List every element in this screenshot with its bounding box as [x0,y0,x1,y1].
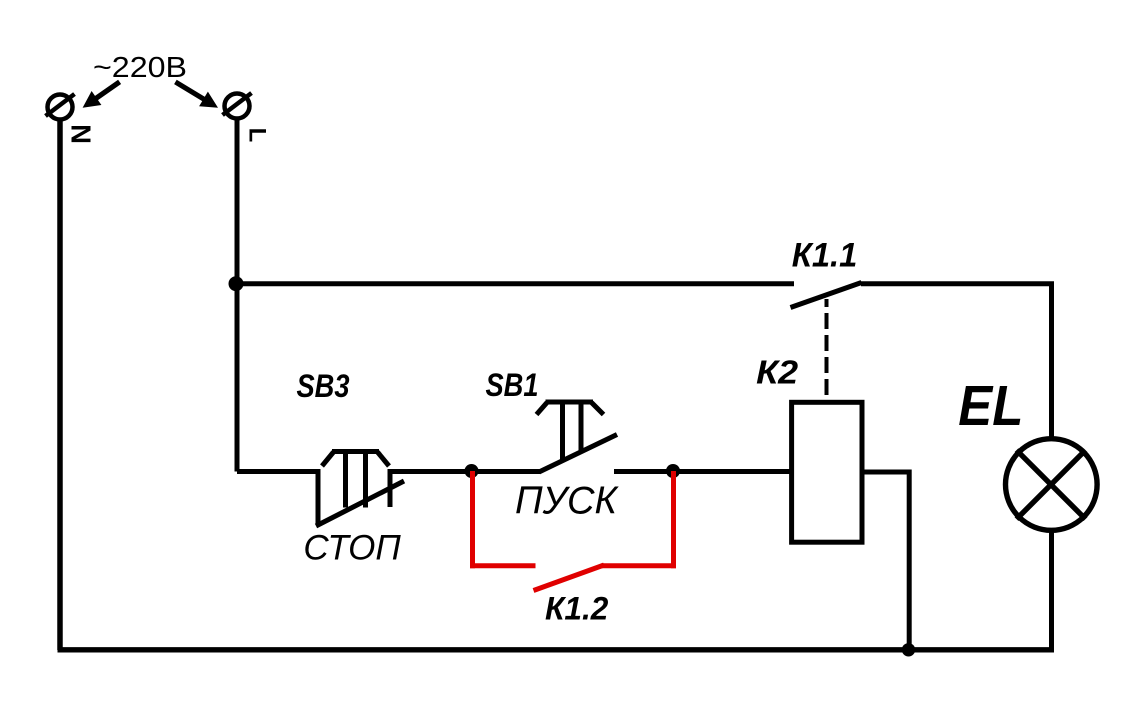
node A junction dot [465,464,479,478]
contact K1.1 (closed arm diagonal) [791,283,862,308]
wire SB1 to node B [614,469,675,474]
wire node A to SB1 [471,469,541,474]
red wire bypass left horizontal [470,563,536,568]
wire lamp bottom [1049,530,1054,650]
svg-text:L: L [244,128,271,143]
wire bottom horizontal [58,647,1055,652]
svg-text:К1.2: К1.2 [545,590,609,626]
node junction bottom [902,643,915,656]
wire SB3 to node A [390,469,474,474]
pushbutton SB3 (NC) [316,452,404,527]
wire left vertical from N terminal to bottom [57,120,63,651]
dashed mechanical link K1.1 to K2 [825,299,829,400]
svg-text:SB3: SB3 [297,368,350,404]
terminal N [46,94,75,120]
terminal L [223,93,252,119]
svg-text:К2: К2 [756,354,799,391]
svg-text:EL: EL [958,374,1023,438]
wire from K1.1 to right corner [861,284,1052,440]
wire K2 right to down [862,472,909,650]
svg-text:ПУСК: ПУСК [515,480,619,523]
node junction at top branch [229,276,244,291]
wire top horizontal to K1.1 [236,281,794,286]
red wire bypass right horizontal [602,563,677,568]
red wire bypass left vertical [470,471,475,568]
relay coil K2 [792,402,862,542]
svg-text:СТОП: СТОП [303,528,401,567]
svg-text:~220В: ~220В [93,52,187,84]
wire middle row from L drop to SB3 [237,469,319,474]
wire L vertical from L terminal down to contact row [235,119,240,472]
svg-text:N: N [66,124,97,144]
svg-text:SB1: SB1 [486,367,539,403]
lamp EL [1006,439,1098,531]
pushbutton SB1 (NO) [537,402,618,472]
node B junction dot [666,464,680,478]
arrow to terminal N [83,80,122,108]
contact K1.2 (red, open arm) [534,565,605,591]
wire node B to K2 coil [673,469,791,474]
red wire bypass right vertical [671,471,676,568]
arrow to terminal L [174,80,218,108]
svg-text:К1.1: К1.1 [792,236,858,274]
